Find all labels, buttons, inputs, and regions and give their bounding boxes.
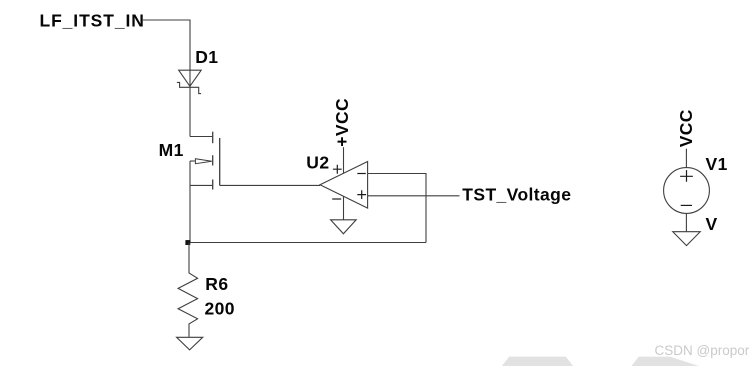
svg-text:+VCC: +VCC <box>332 98 352 147</box>
svg-text:R6: R6 <box>205 274 228 294</box>
op-amp U2 V+ plus marker <box>333 165 342 174</box>
ground under R6 <box>177 337 203 350</box>
svg-text:TST_Voltage: TST_Voltage <box>462 184 571 204</box>
transistor M1 body contact bar <box>212 155 214 165</box>
op-amp U2 non-inverting input marker <box>357 190 366 199</box>
op-amp U2 triangle <box>320 162 368 209</box>
transistor M1 substrate arrow <box>195 159 211 164</box>
diode D1 (zener) triangle <box>179 70 202 86</box>
wire V1 minus terminal to ground <box>685 213 687 231</box>
wire VCC to V1 plus terminal <box>685 149 687 168</box>
wire feedback node line <box>188 242 426 244</box>
svg-text:M1: M1 <box>159 140 184 160</box>
svg-text:LF_ITST_IN: LF_ITST_IN <box>40 10 145 30</box>
wire M1 body/source to node <box>189 161 191 243</box>
svg-text:V1: V1 <box>706 154 728 174</box>
transistor M1 source contact bar <box>212 180 214 190</box>
transistor M1 gate line <box>219 138 221 185</box>
op-amp U2 V- minus marker <box>332 198 341 200</box>
svg-text:VCC: VCC <box>676 109 696 147</box>
voltage source V1 plus marker <box>680 170 693 182</box>
op-amp U2 V+ power pin <box>343 147 345 173</box>
transistor M1 source stub wire <box>190 184 212 186</box>
transistor M1 drain contact bar <box>212 132 214 144</box>
watermark shape right <box>631 357 699 366</box>
ground under V1 <box>673 232 700 246</box>
wire U2 inverting input feedback <box>368 174 426 243</box>
wire U2 non-inverting input to TST_Voltage <box>368 195 460 197</box>
wire M1 gate to op-amp output <box>220 184 320 186</box>
diode D1 zener cathode bar <box>177 82 201 93</box>
op-amp U2 V- power pin <box>343 196 345 219</box>
svg-text:V: V <box>706 214 718 234</box>
transistor M1 body arrow wire <box>190 160 195 162</box>
svg-text:D1: D1 <box>195 47 218 67</box>
svg-text:CSDN @propor: CSDN @propor <box>655 343 750 358</box>
wire from LF_ITST_IN to D1 anode <box>142 20 190 137</box>
svg-text:200: 200 <box>205 299 235 319</box>
transistor M1 drain stub wire <box>190 136 212 138</box>
voltage source V1 circle <box>664 168 710 214</box>
op-amp U2 inverting input marker <box>357 173 366 175</box>
node junction dot <box>185 240 190 245</box>
resistor R6 body <box>178 243 198 337</box>
ground under op-amp U2 <box>331 220 357 234</box>
watermark shape left <box>502 357 573 366</box>
voltage source V1 minus marker <box>681 204 692 206</box>
svg-text:U2: U2 <box>306 152 329 172</box>
